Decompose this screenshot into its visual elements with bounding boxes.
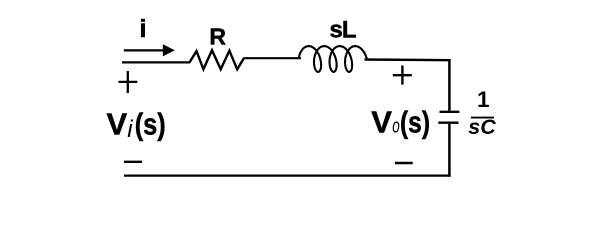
capacitor C top plate [440,111,460,113]
svg-text:V: V [107,107,128,142]
wire top-left (input node to resistor) [122,61,190,63]
svg-text:o: o [392,116,400,138]
minus sign left (Vi polarity) [124,161,142,163]
svg-text:(s): (s) [400,105,430,140]
svg-text:sC: sC [468,115,496,139]
wire bottom (return path) [124,174,451,176]
svg-text:(s): (s) [135,107,166,142]
svg-text:i: i [140,15,147,43]
svg-text:i: i [127,116,133,143]
svg-text:R: R [209,23,226,49]
svg-text:1: 1 [477,87,490,112]
wire right vertical upper (top corner to capacitor) [448,59,451,111]
wire resistor to inductor [244,57,302,59]
wire right vertical lower (capacitor to bottom wire) [448,124,451,177]
plus sign left (Vi polarity) [119,71,138,93]
resistor R [190,50,245,69]
svg-text:sL: sL [329,17,355,44]
plus sign right (Vo polarity) [393,66,412,85]
inductor sL [299,46,367,72]
current arrow i [124,44,175,56]
minus sign right (Vo polarity) [395,162,413,164]
wire inductor to top-right corner [365,58,451,61]
capacitor C bottom plate [438,121,458,123]
value label 1/sC fraction bar [471,117,494,119]
svg-text:V: V [371,105,392,140]
